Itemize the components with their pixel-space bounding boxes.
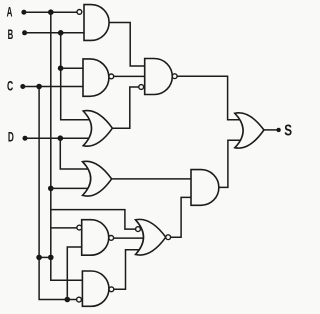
- wire A branch to G8 inverted input: [51, 227, 77, 229]
- wire C horizontal to G2 lower input: [23, 86, 83, 88]
- wire G9 output up to G10 lower input: [114, 250, 142, 289]
- output bubble of G10: [166, 235, 171, 240]
- wire G2 output to G5 middle input: [114, 75, 145, 77]
- wire G8 output to G10 middle input: [114, 237, 144, 239]
- terminal dot D: [23, 136, 28, 141]
- junction dot A to G4 lower input: [48, 186, 54, 192]
- wire G4 output to G7 upper input: [112, 178, 191, 180]
- wire C vertical bus to G9 inverted input: [39, 87, 76, 300]
- wire B vertical bus to G3 upper input: [61, 33, 91, 120]
- input bubble of G1: [77, 10, 82, 15]
- wire G7 output to G6 lower input: [219, 140, 241, 187]
- output bubble of G2: [109, 74, 114, 79]
- junction dot B to G2 upper input: [58, 65, 64, 71]
- junction dot C at bridge: [36, 255, 42, 261]
- junction dot on C net to G8 lower input: [65, 297, 71, 303]
- NOR gate G10 (inverted upper input): [136, 219, 166, 255]
- AND gate G1 (inverted upper input): [84, 5, 109, 41]
- junction dot A at bridge: [48, 255, 54, 261]
- wire G3 output up to G5 inverted input: [112, 87, 138, 128]
- wire B horizontal to G1 lower input: [25, 32, 84, 34]
- wire B branch to G2 upper input: [61, 67, 83, 69]
- svg-text:C: C: [7, 78, 13, 94]
- wire G6 output to S: [264, 129, 277, 131]
- output bubble of G9: [109, 287, 114, 292]
- NAND gate G5 (inverted third input): [145, 59, 173, 95]
- wire A vertical bus down to G9 upper input: [51, 12, 83, 280]
- svg-text:B: B: [8, 26, 14, 42]
- input bubble of G8: [77, 225, 82, 230]
- junction dot C bus: [36, 84, 42, 90]
- OR gate G4: [83, 161, 112, 196]
- wire C branch up to G8 lower input: [67, 247, 81, 300]
- wire A branch to G10 inverted input: [51, 210, 136, 230]
- wire bridge between C bus and A bus: [39, 256, 51, 258]
- input bubble of G5: [139, 85, 144, 90]
- wire G10 output up to G7 lower input: [171, 197, 191, 237]
- output bubble of G5: [172, 74, 177, 79]
- terminal dot B: [22, 30, 27, 35]
- output bubble of G8: [109, 236, 114, 241]
- junction dot A bus: [48, 9, 54, 15]
- junction dot D bus: [58, 135, 64, 141]
- NAND gate G2: [83, 59, 109, 96]
- OR gate G6: [235, 113, 264, 148]
- junction dot B bus: [58, 30, 64, 36]
- terminal dot A: [21, 10, 26, 15]
- terminal dot C: [20, 84, 25, 89]
- NAND gate G9 (inverted lower input): [82, 271, 109, 306]
- svg-text:S: S: [284, 123, 292, 140]
- wire A horizontal to G1 inverted input: [24, 11, 77, 13]
- input bubble of G10: [136, 227, 141, 232]
- wire G5 output to G6 upper input: [177, 76, 241, 120]
- terminal dot S: [276, 128, 280, 132]
- OR gate G3: [83, 111, 112, 147]
- AND gate G7: [191, 170, 219, 206]
- NAND gate G8 (inverted upper input): [82, 220, 109, 256]
- wire G1 output to G5 upper input: [109, 23, 145, 67]
- input bubble of G9: [77, 297, 82, 302]
- wire A branch to G4 lower input: [51, 187, 90, 189]
- wire D vertical to G4 upper input: [60, 138, 90, 169]
- wire D horizontal to G3 lower input: [25, 137, 90, 139]
- svg-text:A: A: [7, 4, 13, 20]
- svg-text:D: D: [8, 129, 14, 145]
